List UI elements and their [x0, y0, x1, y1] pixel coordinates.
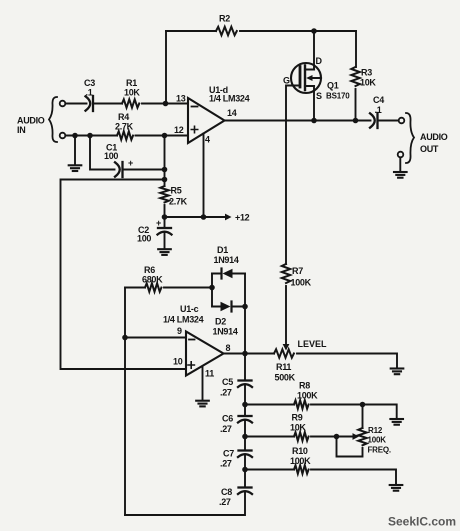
resistor R7 [282, 264, 290, 283]
capacitor C2 [158, 228, 172, 235]
junction C1 node [162, 167, 168, 173]
wire: C8 to bottom rail [125, 492, 245, 515]
svg-text:FREQ.: FREQ. [368, 446, 391, 455]
svg-text:IN: IN [17, 125, 25, 135]
svg-text:1N914: 1N914 [213, 327, 238, 337]
wire: R10 line left [245, 469, 294, 471]
svg-text:LEVEL: LEVEL [298, 339, 328, 349]
wire: R3 bottom [355, 89, 357, 121]
wire: R9 line left [245, 436, 294, 438]
svg-text:R6: R6 [144, 265, 155, 275]
wire: R1 to pin 13 [142, 103, 188, 105]
svg-text:AUDIO: AUDIO [420, 132, 448, 142]
wire: input top to C3 [66, 103, 87, 105]
svg-text:4: 4 [205, 135, 210, 145]
diode D1 1N914 [220, 269, 222, 279]
wire: ground stem input [74, 136, 76, 166]
svg-text:+12: +12 [235, 213, 250, 223]
svg-text:8: 8 [226, 343, 231, 353]
arrow wiper R12 [337, 436, 354, 438]
svg-text:.27: .27 [219, 497, 231, 507]
svg-text:S: S [316, 91, 322, 101]
wire: R2 rail horizontal [166, 30, 356, 32]
wire: R11 to ground [297, 354, 397, 369]
svg-text:11: 11 [205, 369, 214, 379]
brace audio-out [406, 113, 414, 163]
junction R10 node [242, 467, 248, 473]
svg-text:10K: 10K [124, 88, 140, 98]
ground R8 [390, 419, 403, 425]
svg-text:100K: 100K [297, 391, 318, 401]
ground audio-out [394, 172, 407, 178]
resistor R10 [294, 465, 309, 473]
wire: pin 9 lead [125, 337, 186, 339]
wire: C1 to bus [124, 169, 165, 171]
arrow wiper R11 [283, 344, 290, 351]
wire: C2 to ground [164, 233, 166, 249]
svg-text:680K: 680K [142, 275, 163, 285]
wire: U1-c output to R11 [224, 353, 275, 355]
wire: output terminal ground stem [399, 158, 401, 172]
svg-text:100: 100 [137, 234, 151, 244]
capacitor C7 [238, 451, 252, 458]
arrow +12 [225, 214, 232, 221]
svg-text:+: + [128, 158, 133, 168]
junction R3 node [353, 118, 359, 124]
svg-text:C6: C6 [222, 414, 233, 424]
wire: R2 rail left vertical [165, 31, 167, 104]
svg-text:U1-c: U1-c [180, 304, 199, 314]
wire: input bottom to R4 [66, 135, 118, 137]
wire: R12 top lead [362, 405, 364, 429]
diode D2 1N914 [221, 302, 231, 312]
svg-text:R2: R2 [219, 14, 230, 24]
svg-text:10K: 10K [290, 423, 306, 433]
ground R11 [391, 369, 404, 375]
wire: R4 to pin 12 [136, 135, 189, 137]
svg-text:.27: .27 [220, 459, 232, 469]
junction source node [311, 118, 317, 124]
svg-text:C8: C8 [221, 487, 232, 497]
svg-text:1N914: 1N914 [214, 255, 239, 265]
wire: C7 to R10 node [244, 455, 246, 487]
wire: R8 to ground [311, 405, 397, 419]
wire: +12 rail [165, 216, 226, 218]
svg-text:.27: .27 [220, 424, 232, 434]
resistor R9 [294, 432, 309, 440]
svg-text:OUT: OUT [420, 144, 439, 154]
terminal audio-in bottom [60, 133, 66, 139]
junction pin12 node [162, 133, 168, 139]
junction pin4 node [201, 214, 207, 220]
svg-text:R5: R5 [171, 186, 182, 196]
svg-text:R3: R3 [361, 68, 372, 78]
svg-text:SeekIC.com: SeekIC.com [388, 515, 456, 529]
capacitor C1 [115, 162, 123, 177]
op-amp U1-c [186, 332, 224, 376]
wire: cap column C5 top [244, 354, 246, 380]
capacitor C4 [370, 113, 378, 128]
wire: C1 branch [90, 136, 115, 170]
svg-text:D: D [316, 56, 323, 66]
wire: R6 left lead [125, 287, 145, 289]
wire: R5 to +12 node [164, 205, 166, 217]
resistor R8 [294, 400, 309, 408]
wire: bias bus vertical [164, 136, 166, 187]
svg-text:100: 100 [104, 151, 118, 161]
wire: pin 11 ground stem [202, 367, 204, 401]
svg-text:.1: .1 [86, 88, 93, 98]
junction D2 node [242, 304, 248, 310]
svg-text:R12: R12 [368, 426, 383, 435]
junction feedback node [162, 177, 168, 183]
wire: feedback bus to pin 10 [61, 180, 187, 370]
junction R12 top node [360, 402, 366, 408]
resistor R5 [160, 186, 168, 202]
junction C1 tap [87, 133, 93, 139]
capacitor C5 [238, 381, 252, 388]
svg-text:10K: 10K [360, 78, 376, 88]
wire: C4 to output terminal [379, 120, 399, 122]
transistor Q1 BS170 [291, 63, 321, 93]
ground R10 [390, 485, 403, 491]
ground pin11 [196, 401, 209, 407]
wire: R12 bottom loop [337, 437, 363, 457]
terminal audio-out bottom [398, 152, 404, 158]
svg-text:R11: R11 [276, 362, 291, 372]
potentiometer R11 [274, 349, 294, 357]
wire: R9 to R12 wiper [311, 436, 337, 438]
resistor R6 [145, 283, 161, 291]
wire: C2 stem top [164, 217, 166, 227]
svg-text:R7: R7 [292, 266, 303, 276]
svg-text:9: 9 [177, 326, 182, 336]
svg-text:100K: 100K [291, 278, 312, 288]
wire: C3 to R1 [94, 103, 122, 105]
wire: R7 to wiper arrow [285, 286, 287, 345]
wire: R6 right lead [164, 287, 212, 289]
svg-text:2.7K: 2.7K [169, 197, 188, 207]
ground C2 [158, 249, 171, 255]
brace audio-in [49, 97, 57, 142]
svg-text:.27: .27 [220, 388, 232, 398]
svg-text:1/4 LM324: 1/4 LM324 [209, 94, 250, 104]
wire: rail to R3 [355, 31, 357, 67]
junction pin13 node [163, 101, 169, 107]
svg-text:C7: C7 [223, 449, 234, 459]
junction R6-diode node [209, 285, 215, 291]
svg-text:D1: D1 [217, 245, 228, 255]
wire: pin 4 to +12 rail [203, 134, 205, 218]
svg-text:R8: R8 [299, 381, 310, 391]
svg-text:C5: C5 [222, 377, 233, 387]
capacitor C6 [238, 416, 252, 423]
terminal audio-in top [60, 101, 66, 107]
wire: R8 line left [245, 404, 294, 406]
wire: C6 to R9 node [244, 421, 246, 450]
svg-text:12: 12 [174, 125, 184, 135]
wire: pin 9 column vertical [124, 288, 126, 516]
resistor R3 [351, 67, 359, 86]
resistor R2 [216, 27, 237, 35]
junction +12 node [162, 214, 168, 220]
wire: source vertical [313, 86, 315, 121]
terminal audio-out top [399, 118, 405, 124]
wire: gate lead down to R7 [286, 86, 300, 265]
svg-text:1/4 LM324: 1/4 LM324 [163, 315, 204, 325]
svg-text:13: 13 [176, 94, 186, 104]
svg-text:2.7K: 2.7K [115, 122, 134, 132]
wire: D1 branch leads [212, 273, 245, 275]
svg-text:10: 10 [173, 357, 183, 367]
svg-text:D2: D2 [215, 317, 226, 327]
svg-text:R10: R10 [292, 446, 308, 456]
junction pin8 node [242, 351, 248, 357]
wire: C5 to R8 node [244, 385, 246, 415]
svg-text:C4: C4 [373, 95, 384, 105]
svg-text:100K: 100K [290, 456, 311, 466]
capacitor C3 [86, 96, 94, 111]
svg-text:Q1: Q1 [327, 81, 339, 91]
junction R12 wiper node [334, 434, 340, 440]
wire: drain vertical [313, 31, 315, 70]
capacitor C8 [238, 488, 252, 495]
svg-text:.1: .1 [375, 105, 382, 115]
potentiometer R12 [358, 428, 366, 445]
svg-text:R4: R4 [118, 112, 129, 122]
junction pin9 node [122, 335, 128, 341]
wire: R10 to ground [311, 470, 396, 485]
junction input gnd tap [72, 133, 78, 139]
ground input [69, 165, 82, 171]
junction drain-top [311, 28, 317, 34]
svg-text:100K: 100K [368, 436, 387, 445]
resistor R1 [122, 99, 139, 107]
resistor R4 [117, 131, 133, 139]
svg-text:BS170: BS170 [326, 92, 350, 101]
svg-text:AUDIO: AUDIO [17, 116, 45, 126]
svg-text:G: G [283, 76, 290, 86]
wire: U1-d output line [225, 120, 371, 122]
wire: diode left vertical [211, 274, 213, 307]
svg-text:C3: C3 [84, 78, 95, 88]
svg-text:14: 14 [227, 108, 237, 118]
wire: diode right vertical [244, 274, 246, 354]
svg-text:R1: R1 [126, 78, 137, 88]
junction R9 node [242, 434, 248, 440]
junction R8 node [242, 402, 248, 408]
wire: D2 branch leads [212, 306, 245, 308]
op-amp U1-d [188, 98, 225, 143]
svg-text:+: + [156, 218, 161, 228]
svg-text:500K: 500K [275, 373, 296, 383]
svg-text:R9: R9 [292, 413, 303, 423]
